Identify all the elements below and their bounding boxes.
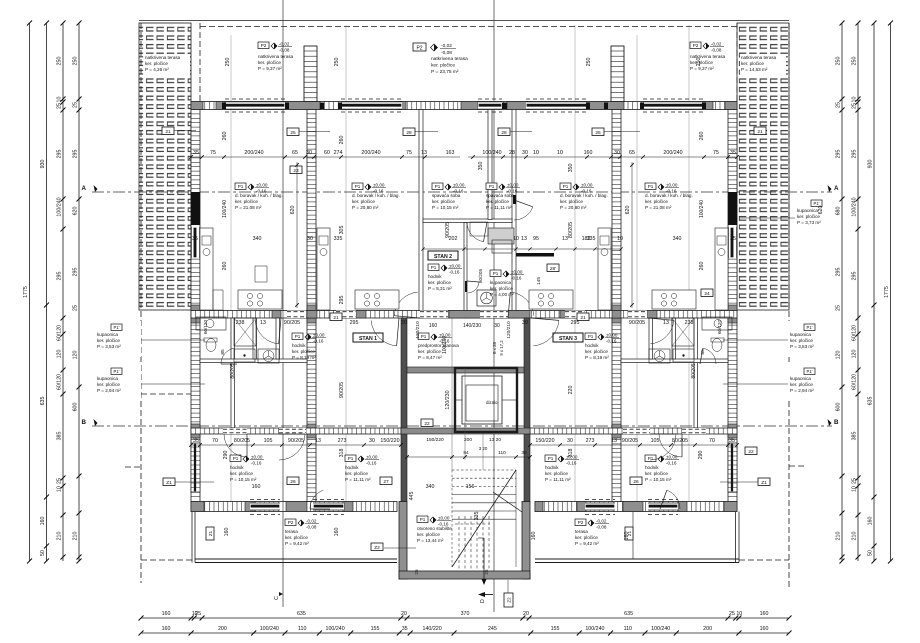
pier divider left south [307, 424, 316, 438]
svg-text:160: 160 [429, 323, 438, 329]
svg-text:100/240: 100/240 [482, 150, 501, 156]
stair protrusion wall left [399, 502, 407, 580]
door stan2 entry [394, 292, 420, 318]
bathroom fixtures stan1 lower [196, 317, 279, 363]
key box Z2 bottom center [504, 580, 513, 607]
door stan2 gap right [508, 292, 534, 318]
stair dim row y440 [426, 437, 501, 443]
key box 25 right [592, 128, 604, 136]
grid line x=637 [636, 35, 638, 509]
window 100/240 bottom stan1 [250, 503, 280, 511]
svg-text:ker. pločice: ker. pločice [145, 61, 168, 66]
wall above elevator solid [407, 367, 524, 373]
svg-text:13 20: 13 20 [489, 437, 501, 443]
key box Z1 rot right terrace [625, 527, 633, 540]
section mark C bottom [274, 592, 283, 600]
interior dimension row y322 [203, 320, 722, 355]
svg-text:350: 350 [568, 164, 574, 173]
svg-text:STAN 2: STAN 2 [434, 254, 452, 260]
svg-text:80/205: 80/205 [478, 269, 483, 283]
svg-text:kupaonica: kupaonica [790, 376, 811, 381]
svg-text:10: 10 [557, 150, 563, 156]
svg-text:13: 13 [521, 236, 527, 242]
window 200/240 stan2 living right [526, 99, 587, 112]
bottom dimension chain row 2 [139, 626, 792, 636]
svg-text:Z1: Z1 [761, 480, 767, 486]
room label stan1 living [235, 183, 283, 210]
svg-text:ker. pločice: ker. pločice [230, 471, 253, 476]
svg-text:±0,00: ±0,00 [666, 183, 678, 188]
svg-text:250: 250 [225, 58, 231, 67]
svg-text:160: 160 [760, 611, 769, 617]
svg-text:-0,08: -0,08 [711, 47, 722, 52]
svg-text:65: 65 [292, 150, 298, 156]
overhang dashed line right bottom short [739, 559, 789, 561]
svg-text:210: 210 [852, 532, 858, 541]
svg-text:120: 120 [836, 351, 842, 360]
terrace divider line right [632, 512, 634, 560]
svg-text:P = 11,11 m²: P = 11,11 m² [486, 205, 512, 210]
svg-text:340: 340 [673, 236, 682, 242]
leader 28 right [510, 131, 532, 133]
dimension chain right detail [852, 21, 861, 562]
svg-text:445: 445 [409, 492, 415, 501]
svg-text:85: 85 [220, 349, 226, 355]
svg-text:25: 25 [852, 103, 858, 109]
room label bedroom1 [432, 183, 466, 210]
grid line x=231 [230, 35, 232, 509]
key box 21 mid-left [330, 313, 342, 321]
exterior wall right [728, 110, 737, 502]
svg-text:250: 250 [696, 58, 702, 67]
svg-text:P2: P2 [288, 520, 294, 525]
room label stan1 hodnik lower [230, 455, 264, 482]
pier top corner left [191, 102, 203, 110]
svg-text:318: 318 [568, 449, 574, 458]
svg-text:250: 250 [57, 57, 63, 66]
window 200/240 stan3 living [643, 99, 704, 112]
svg-text:ker. pločice: ker. pločice [97, 382, 120, 387]
svg-text:P = 8,47 m²: P = 8,47 m² [418, 355, 442, 360]
svg-text:22: 22 [748, 449, 754, 455]
svg-text:635: 635 [868, 397, 874, 406]
room label stan2 living right [560, 183, 608, 210]
svg-text:P = 5,31 m²: P = 5,31 m² [428, 286, 452, 291]
svg-text:STAN 3: STAN 3 [559, 336, 577, 342]
pier right wall corridor junction [728, 305, 737, 323]
svg-text:100/240: 100/240 [57, 197, 63, 216]
svg-text:90/205: 90/205 [622, 438, 638, 444]
svg-text:100/240: 100/240 [852, 197, 858, 216]
terrace label bottom left [285, 519, 319, 546]
door bedroom2 [514, 200, 533, 220]
interior vertical dims column x575 [568, 164, 574, 458]
svg-text:30: 30 [614, 150, 620, 156]
door 100/240 bottom stan1 terrace [313, 503, 344, 511]
svg-text:ker. pločice: ker. pločice [285, 535, 308, 540]
leader 21 left [174, 130, 196, 132]
svg-text:±0,00: ±0,00 [366, 455, 378, 460]
door gap corridor 2 [336, 311, 356, 319]
svg-text:10: 10 [57, 97, 63, 103]
key box 21 right [754, 127, 766, 135]
overhang dashed stub right y466 [789, 465, 805, 467]
svg-text:ker. pločice: ker. pločice [797, 214, 820, 219]
svg-text:25: 25 [836, 305, 842, 311]
svg-text:24: 24 [704, 291, 710, 297]
svg-text:295: 295 [571, 320, 580, 326]
svg-text:23: 23 [293, 168, 299, 174]
svg-text:20: 20 [401, 611, 407, 617]
door stan2 bath [467, 281, 479, 293]
svg-text:30: 30 [401, 320, 407, 326]
svg-text:85: 85 [700, 349, 706, 355]
door bedroom1 [467, 222, 487, 242]
svg-text:50: 50 [40, 550, 46, 556]
door 90/205 hodnik right [623, 428, 650, 434]
room label stan3 living [645, 183, 693, 210]
svg-text:P1: P1 [588, 334, 594, 339]
hatched block right (existing neighbouring structure) [737, 23, 789, 310]
svg-text:295: 295 [350, 320, 359, 326]
svg-text:P = 9,37 m²: P = 9,37 m² [690, 66, 714, 71]
stair dim row y455 [405, 446, 532, 459]
svg-text:100/240: 100/240 [699, 200, 705, 218]
svg-text:8 x 28: 8 x 28 [492, 342, 497, 354]
svg-text:35: 35 [193, 150, 199, 156]
svg-text:620: 620 [818, 206, 824, 215]
svg-text:295: 295 [836, 268, 842, 277]
svg-text:200/240: 200/240 [663, 150, 682, 156]
svg-text:P = 23,75 m²: P = 23,75 m² [431, 69, 459, 75]
svg-text:25: 25 [195, 611, 201, 617]
partition stan1 bath 1 [231, 318, 235, 428]
svg-text:P = 14,63 m²: P = 14,63 m² [741, 67, 768, 72]
interior wall stan2/stan3 divider [612, 110, 621, 502]
column top wall b [285, 103, 289, 110]
svg-text:60: 60 [324, 150, 330, 156]
elevator shaft dizalo [455, 368, 517, 432]
window 100/240 right wall [728, 227, 737, 258]
leader Z1 right [720, 481, 758, 483]
window 100/240 left wall [191, 227, 200, 258]
interior vertical dims column x452 [445, 162, 484, 410]
svg-text:P = 2,94 m²: P = 2,94 m² [790, 388, 814, 393]
svg-text:10: 10 [736, 611, 742, 617]
svg-text:200: 200 [464, 437, 472, 443]
key box 27 left [380, 477, 392, 485]
wall south corridor right band [530, 428, 737, 434]
svg-text:340: 340 [253, 236, 262, 242]
exterior wall top band [191, 102, 737, 110]
svg-text:120: 120 [852, 350, 858, 359]
stairwell wall left solid [401, 318, 407, 502]
svg-text:spavaća soba: spavaća soba [486, 193, 515, 198]
svg-text:155: 155 [371, 626, 380, 632]
window left wall lower french [191, 443, 200, 492]
dimension chain left outer 1775 [23, 21, 32, 564]
svg-text:13: 13 [611, 438, 617, 444]
partition stan1 bath 2 [253, 318, 257, 359]
svg-text:105: 105 [651, 438, 660, 444]
svg-text:70: 70 [709, 438, 715, 444]
svg-text:110: 110 [498, 450, 506, 456]
column top wall g [640, 103, 644, 110]
leader 28 left [415, 131, 438, 133]
beam top bedroom right [507, 102, 532, 110]
svg-text:100/240: 100/240 [326, 626, 345, 632]
svg-text:140/220: 140/220 [423, 626, 442, 632]
leader 25 right [604, 131, 640, 133]
pier corridor c [356, 311, 366, 319]
terrace divider wall left [304, 46, 317, 102]
svg-text:105: 105 [264, 438, 273, 444]
svg-text:620: 620 [73, 207, 79, 216]
margin label right kupaonica 2,94 [788, 365, 834, 401]
svg-text:Z1: Z1 [208, 530, 213, 536]
room label stan2 living left [352, 183, 400, 210]
pier bottom 5 [535, 502, 543, 512]
svg-text:295: 295 [57, 272, 63, 281]
dim row y327 center small [429, 323, 500, 329]
svg-text:13: 13 [260, 320, 266, 326]
svg-text:P = 4,26 m²: P = 4,26 m² [145, 67, 169, 72]
leader 25 left [299, 131, 330, 133]
svg-text:210: 210 [73, 532, 79, 541]
svg-text:100/240: 100/240 [260, 626, 279, 632]
svg-text:ker. pločice: ker. pločice [345, 471, 368, 476]
svg-text:natkrivena terasa: natkrivena terasa [741, 55, 777, 60]
svg-text:250: 250 [586, 58, 592, 67]
pier corridor b [307, 311, 317, 319]
key box 22 right [745, 447, 757, 455]
svg-text:385: 385 [57, 432, 63, 441]
svg-text:hodnik: hodnik [230, 465, 244, 470]
svg-text:160: 160 [162, 626, 171, 632]
svg-text:10: 10 [57, 486, 63, 492]
svg-text:13: 13 [663, 320, 669, 326]
stair count labels 8x28 9x17 [492, 340, 504, 356]
door 80/205 hodnik left [223, 428, 247, 434]
window sill dashes bottom windows [250, 500, 678, 515]
svg-text:d. boravak / kuh. / blag.: d. boravak / kuh. / blag. [645, 193, 693, 198]
door gap corridor 90/205 stan1 [287, 311, 306, 319]
interior wall stan1/stan2 divider [307, 110, 316, 502]
svg-text:156: 156 [466, 484, 475, 490]
grid line x=689 [688, 25, 690, 509]
door arc hodnik right a [659, 434, 682, 457]
terrace label P2 natkrivena terasa right [690, 42, 726, 71]
svg-text:natkrivena terasa: natkrivena terasa [431, 56, 468, 62]
svg-text:25: 25 [57, 103, 63, 109]
svg-text:A: A [82, 185, 87, 192]
key box 26 right [630, 477, 642, 485]
door gap corridor 90/205 stan3 [628, 311, 647, 319]
exterior wall bottom left part [191, 502, 397, 512]
room label stan1 hodnik 2 [345, 455, 379, 482]
svg-text:-0,16: -0,16 [666, 460, 677, 465]
svg-text:21: 21 [757, 129, 763, 135]
door leaf black center bath [465, 281, 467, 292]
svg-text:600: 600 [836, 403, 842, 412]
svg-text:±0,00: ±0,00 [313, 333, 325, 338]
svg-text:ker. pločice: ker. pločice [418, 349, 441, 354]
interior wall bedroom2 right thin [512, 110, 516, 319]
svg-text:P1: P1 [420, 517, 426, 522]
svg-text:1775: 1775 [23, 286, 29, 298]
svg-text:ker. pločice: ker. pločice [585, 349, 608, 354]
svg-text:P = 3,53 m²: P = 3,53 m² [97, 344, 121, 349]
svg-text:30: 30 [369, 438, 375, 444]
room label stan2 kupaonica [490, 270, 524, 297]
room label stan3 hodnik 2 [545, 455, 579, 482]
svg-text:70: 70 [212, 438, 218, 444]
svg-text:ker. pločice: ker. pločice [432, 199, 455, 204]
svg-text:26: 26 [633, 479, 639, 485]
svg-text:P1': P1' [114, 369, 120, 374]
window 200/240 stan2 living [341, 99, 402, 112]
svg-text:ker. pločice: ker. pločice [417, 532, 440, 537]
svg-text:±0,00: ±0,00 [606, 333, 618, 338]
svg-text:natkrivena terasa: natkrivena terasa [145, 55, 181, 60]
svg-text:ker. pločice: ker. pločice [431, 63, 455, 69]
svg-text:100/240: 100/240 [651, 626, 670, 632]
key box 28 left [403, 128, 415, 136]
svg-text:P = 9,42 m²: P = 9,42 m² [575, 541, 599, 546]
kitchen counter stan3 [652, 228, 728, 310]
key box 26 left [287, 477, 299, 485]
svg-text:P1': P1' [807, 369, 813, 374]
pier bottom 7 [623, 502, 643, 512]
svg-text:ker. pločice: ker. pločice [235, 199, 258, 204]
stair dim extension lines [452, 318, 483, 470]
svg-text:274: 274 [334, 150, 343, 156]
svg-text:160: 160 [868, 517, 874, 526]
svg-text:P = 20,80 m²: P = 20,80 m² [352, 205, 379, 210]
svg-text:P = 11,11 m²: P = 11,11 m² [545, 477, 571, 482]
svg-text:200/240: 200/240 [361, 150, 380, 156]
svg-text:30: 30 [567, 438, 573, 444]
door stan3 living-hall [648, 318, 674, 344]
column top center right [502, 103, 507, 110]
svg-text:-0,08: -0,08 [441, 50, 452, 56]
svg-text:Z1: Z1 [166, 480, 172, 486]
svg-text:-0,02: -0,02 [711, 42, 722, 47]
svg-text:1775: 1775 [884, 286, 890, 298]
bathroom fixtures stan3 lower [649, 317, 732, 363]
terrace label bottom right [575, 519, 609, 546]
svg-text:25: 25 [595, 130, 601, 136]
svg-text:P = 21,08 m²: P = 21,08 m² [645, 205, 672, 210]
svg-text:160: 160 [334, 528, 340, 537]
svg-text:P2: P2 [693, 43, 699, 48]
svg-text:P1: P1 [493, 271, 499, 276]
svg-text:250: 250 [836, 57, 842, 66]
terrace divider wall right [611, 46, 624, 102]
svg-text:-0,08: -0,08 [279, 47, 290, 52]
key box Z1 rot left terrace [206, 527, 214, 540]
svg-text:13: 13 [315, 438, 321, 444]
svg-text:25: 25 [836, 102, 842, 108]
pier top 2 [216, 102, 225, 110]
key box 21 mid-right [577, 313, 589, 321]
svg-text:-0,08: -0,08 [596, 524, 607, 529]
svg-text:27: 27 [383, 479, 389, 485]
door 90/205 hodnik left [279, 428, 306, 434]
svg-text:160: 160 [40, 517, 46, 526]
svg-text:hodnik: hodnik [545, 465, 559, 470]
key box Z1 margin right [758, 478, 770, 486]
door leaf bedroom2 [513, 195, 516, 204]
svg-text:120: 120 [73, 351, 79, 360]
section mark D bottom [478, 592, 493, 603]
svg-text:25: 25 [729, 611, 735, 617]
svg-text:ker. pločice: ker. pločice [575, 535, 598, 540]
text overlay on right hatch: natkrivena terasa [740, 54, 786, 76]
svg-text:P = 21,08 m²: P = 21,08 m² [235, 205, 262, 210]
svg-text:±0,00: ±0,00 [438, 516, 450, 521]
svg-text:P = 20,80 m²: P = 20,80 m² [560, 205, 587, 210]
svg-text:75: 75 [713, 150, 719, 156]
interior wall bedroom1 left thin [419, 110, 423, 319]
svg-text:hodnik: hodnik [292, 343, 306, 348]
svg-text:ker. pločice: ker. pločice [486, 199, 509, 204]
svg-text:635: 635 [297, 611, 306, 617]
svg-text:P1: P1 [238, 184, 244, 189]
room label bedroom2 [486, 183, 520, 210]
hatched block left (existing neighbouring structure) [139, 23, 191, 310]
terrace dashed boundary top [200, 26, 737, 28]
svg-text:±0,00: ±0,00 [511, 270, 523, 275]
svg-text:-0,02: -0,02 [441, 43, 452, 49]
svg-text:P = 3,73 m²: P = 3,73 m² [797, 220, 821, 225]
svg-text:predprostor stanova: predprostor stanova [418, 343, 459, 348]
svg-text:kupaonica: kupaonica [97, 332, 118, 337]
margin label right kupaonica 3,53 [788, 321, 834, 357]
svg-text:260: 260 [222, 262, 228, 271]
STAN 3 box [553, 333, 583, 342]
svg-text:635: 635 [40, 397, 46, 406]
terrace label P2 natkrivena terasa left [258, 42, 294, 71]
svg-text:P = 4,00 m²: P = 4,00 m² [490, 292, 514, 297]
overhang dashed line left [140, 23, 142, 583]
svg-text:±0,00: ±0,00 [453, 183, 465, 188]
leader right kupaonica 3,73 [740, 217, 796, 219]
svg-text:21: 21 [165, 129, 171, 135]
svg-text:160: 160 [162, 611, 171, 617]
svg-text:ker. pločice: ker. pločice [428, 280, 451, 285]
svg-text:hodnik: hodnik [585, 343, 599, 348]
partition stan3 bath horizontal [621, 359, 728, 363]
svg-text:10: 10 [852, 486, 858, 492]
svg-text:295: 295 [852, 272, 858, 281]
svg-text:ker. pločice: ker. pločice [258, 60, 281, 65]
svg-text:250: 250 [852, 57, 858, 66]
svg-text:P2: P2 [416, 46, 422, 52]
leader right kupaonica 2,94 [723, 383, 789, 385]
svg-text:P = 9,42 m²: P = 9,42 m² [285, 541, 309, 546]
svg-text:140/230: 140/230 [463, 323, 481, 329]
room label stan3 hodnik lower [645, 455, 679, 482]
svg-text:335: 335 [334, 236, 343, 242]
svg-text:9 x 17,2: 9 x 17,2 [499, 340, 504, 356]
svg-text:STAN 1: STAN 1 [359, 336, 377, 342]
svg-text:80/205: 80/205 [691, 363, 697, 379]
svg-text:20: 20 [523, 611, 529, 617]
stair protrusion wall right [522, 502, 530, 580]
window right wall lower french [728, 443, 737, 492]
svg-text:P = 11,11 m²: P = 11,11 m² [345, 477, 371, 482]
